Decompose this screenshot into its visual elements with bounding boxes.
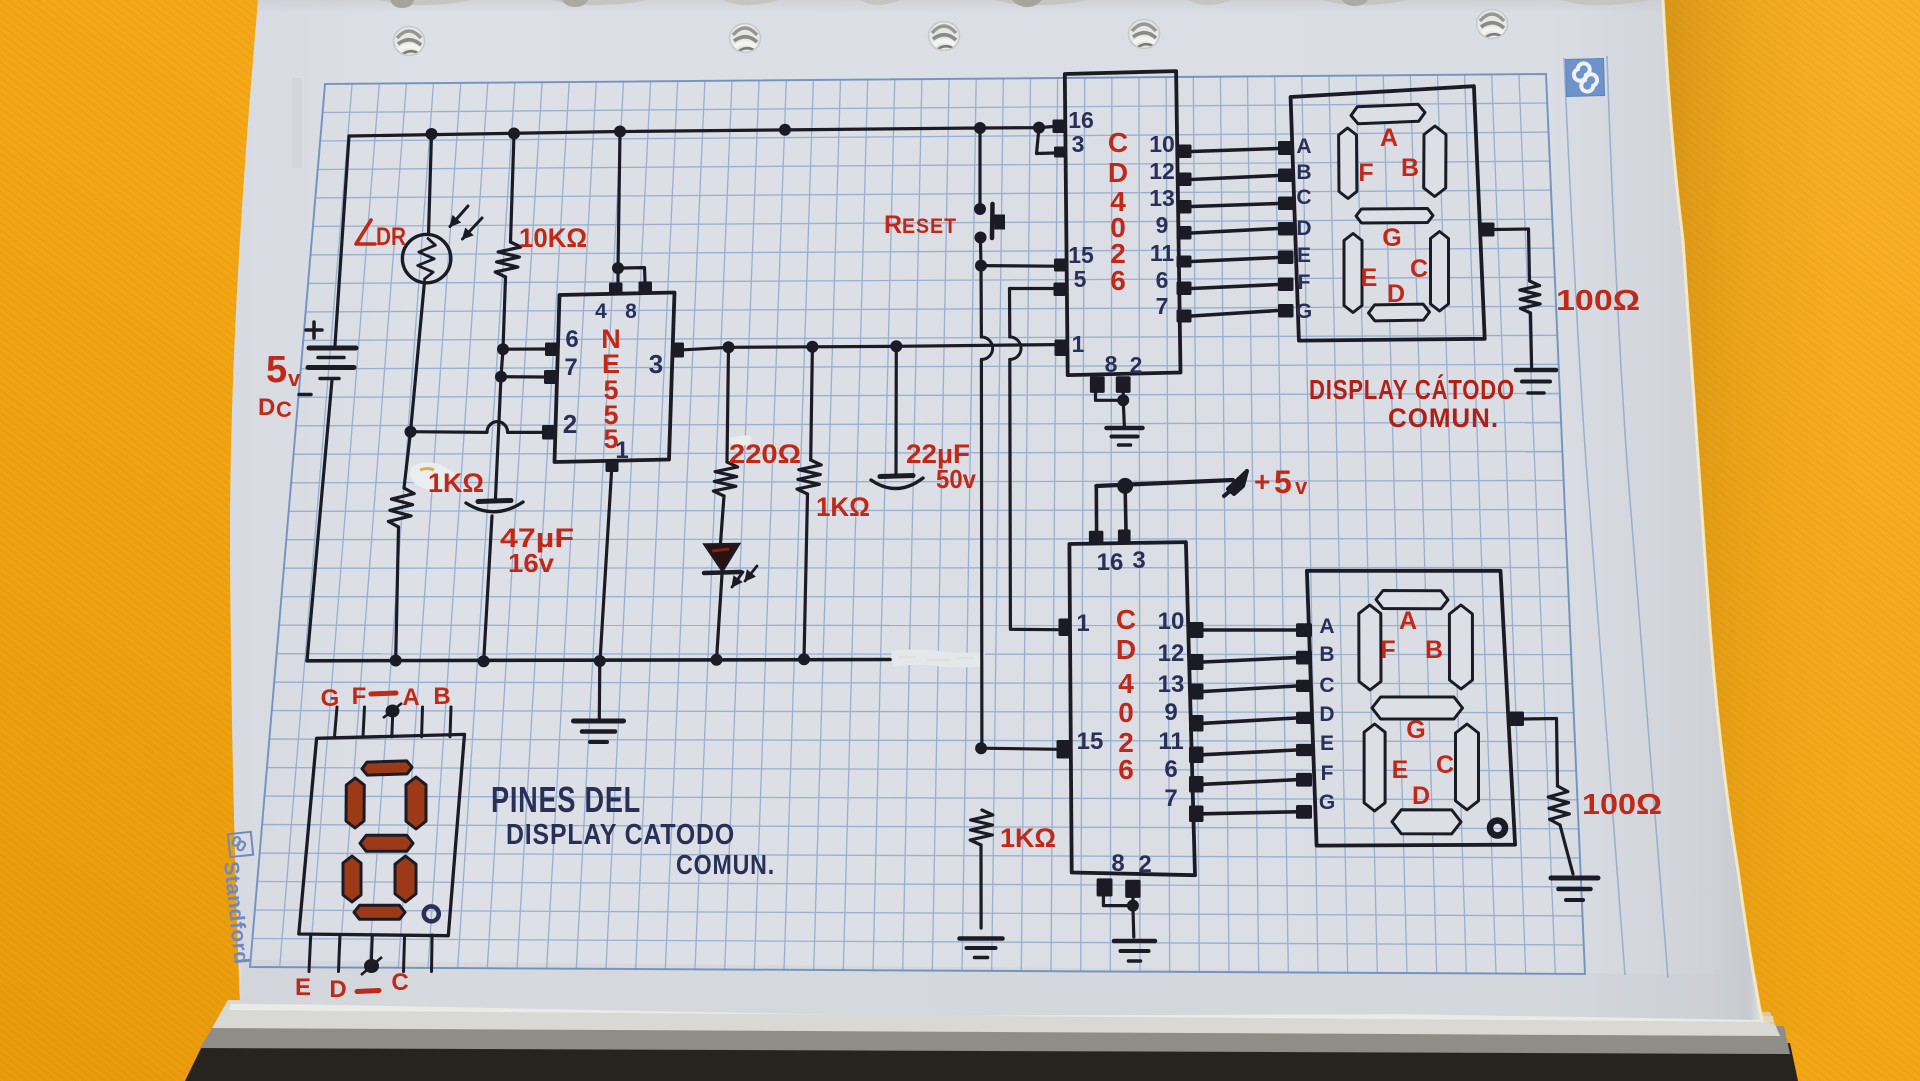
wire bus to 10k	[511, 134, 515, 243]
binder holes	[394, 10, 1508, 56]
display-1 input stubs	[1278, 141, 1294, 318]
svg-text:D: D	[1296, 217, 1311, 240]
wires CD4026-1 to display-1 segments	[1192, 149, 1279, 317]
note COMUN.	[676, 849, 775, 880]
wire pin6 node to pin7 node	[501, 349, 503, 377]
CD4026-1 pin8 stub	[1090, 376, 1105, 393]
label dash bottom	[357, 991, 379, 992]
wire 220R to LED	[721, 496, 725, 543]
svg-text:16: 16	[1097, 549, 1124, 576]
svg-text:DR: DR	[376, 223, 406, 251]
svg-text:5: 5	[603, 424, 618, 454]
svg-text:D: D	[1319, 703, 1334, 726]
resistor 100Ω (1)	[1520, 281, 1540, 313]
svg-text:50v: 50v	[936, 464, 976, 494]
svg-text:5: 5	[266, 349, 287, 391]
svg-text:15: 15	[1068, 242, 1094, 268]
svg-text:E: E	[1392, 756, 1409, 784]
junction pin8-2	[1117, 394, 1129, 406]
label A	[402, 684, 419, 711]
junction pin3 / 22uF	[890, 340, 902, 352]
svg-text:D: D	[329, 976, 346, 1003]
label 100Ω (1)	[1556, 285, 1640, 317]
svg-text:5: 5	[1274, 464, 1292, 500]
display-1 seven segments	[1339, 104, 1449, 321]
ground symbol main	[574, 661, 624, 742]
svg-text:3: 3	[1072, 131, 1085, 157]
svg-text:1: 1	[1076, 610, 1089, 637]
CD4026-1 pin15 stub	[1054, 259, 1066, 272]
battery 5V DC	[308, 348, 356, 379]
display-2 decimal point	[1490, 821, 1505, 836]
svg-text:7: 7	[564, 354, 577, 381]
svg-text:A: A	[1399, 607, 1417, 635]
wire display-1 common to 100R	[1495, 229, 1530, 281]
svg-text:7: 7	[1164, 785, 1177, 812]
torn paper remnants	[378, 0, 1650, 8]
CD4026-2 output stubs	[1189, 622, 1204, 822]
label 220Ω	[729, 439, 801, 469]
junction top bus / LDR	[426, 128, 438, 140]
pin label 12 (2)	[1158, 640, 1185, 667]
CD4026-2 pin8 stub	[1097, 878, 1113, 896]
wire battery + to bus	[335, 136, 349, 345]
pin label 1	[1072, 331, 1085, 357]
CD4026-1 output pin stubs 10 12 13 9 11 6 7	[1177, 145, 1192, 323]
pin label 7	[564, 354, 577, 381]
wire pins 8+2 to ground (2)	[1103, 897, 1133, 938]
pin label 15 (2)	[1077, 728, 1104, 755]
svg-text:B: B	[1319, 643, 1334, 666]
wire pin7 node down to 47uF	[495, 377, 501, 500]
wire pin3 to 220R	[727, 347, 729, 462]
display-2 input stubs	[1296, 623, 1312, 818]
display-1 input labels A-G	[1296, 135, 1312, 323]
CD4026-1 pin2 stub	[1116, 376, 1131, 393]
pin label 7 (2)	[1164, 785, 1177, 812]
svg-text:F: F	[1380, 636, 1395, 664]
svg-text:G: G	[1382, 224, 1401, 252]
svg-text:G: G	[1296, 300, 1312, 323]
CD4026-1 pin5 stub	[1054, 283, 1066, 297]
svg-text:A: A	[1319, 615, 1334, 638]
resistor 1kΩ (2)	[797, 460, 821, 494]
svg-text:C: C	[1319, 674, 1334, 697]
svg-text:0: 0	[1118, 697, 1134, 728]
label +5v	[1254, 464, 1308, 500]
svg-text:6: 6	[565, 326, 578, 353]
pin label 3 (2)	[1132, 547, 1145, 574]
svg-text:12: 12	[1158, 640, 1185, 667]
svg-text:12: 12	[1149, 158, 1175, 184]
counter CD4026 U2 body	[1065, 71, 1181, 375]
resistor 1kΩ (3)	[970, 810, 993, 845]
label D	[329, 976, 346, 1003]
junction bus / 1k	[390, 655, 402, 667]
notebook sheet of graph paper	[230, 0, 1762, 1020]
pinout sketch display body	[299, 734, 465, 935]
svg-text:220Ω: 220Ω	[729, 439, 801, 469]
svg-text:COMUN.: COMUN.	[1388, 403, 1499, 433]
pin label 15	[1068, 242, 1094, 268]
faint watermark	[292, 78, 302, 168]
svg-text:1KΩ: 1KΩ	[816, 492, 870, 522]
pin label 13	[1149, 185, 1175, 211]
svg-text:C: C	[1436, 751, 1454, 779]
svg-text:F: F	[352, 683, 367, 710]
wire pin15 of CD4026-1	[981, 264, 1054, 268]
pin label 8 (2)	[1111, 850, 1124, 877]
7-segment display DS1 body	[1291, 86, 1485, 340]
wire 10k to pin6 node	[503, 277, 506, 349]
svg-text:4: 4	[1118, 668, 1134, 699]
note DISPLAY CATODO	[506, 819, 735, 851]
junction pin15 node (2)	[975, 742, 987, 754]
label 1KΩ (2)	[816, 492, 870, 522]
display-2 segment letters	[1380, 607, 1454, 810]
pin label 6	[565, 326, 578, 353]
pin label 5	[1074, 266, 1087, 292]
capacitor 47uF 16v	[466, 501, 523, 512]
wire pin7	[501, 375, 544, 378]
label F	[352, 683, 367, 710]
wire bus to pin3	[1037, 128, 1055, 154]
svg-text:C: C	[1108, 127, 1128, 158]
label E	[295, 974, 311, 1001]
wires CD4026-2 to display-2	[1204, 630, 1297, 814]
wire bus drop to pins 4+8	[618, 132, 645, 283]
pin label 6	[1156, 267, 1169, 293]
svg-text:G: G	[321, 685, 340, 712]
wire pin3 to 1k(2)	[811, 347, 813, 460]
op-amp/timer NE555 U1 body	[555, 293, 675, 463]
ground symbol 1k(3)	[960, 939, 1003, 958]
label CD4026 (1)	[1108, 127, 1128, 296]
wire pin6	[503, 347, 545, 350]
NE555 pin4 stub	[609, 283, 623, 296]
pin label 16	[1068, 107, 1094, 133]
CD4026-1 pin1 stub	[1055, 340, 1067, 357]
junction top bus / CD4026 pin3 link	[1033, 122, 1045, 134]
svg-text:E: E	[295, 974, 311, 1001]
pin label 9	[1156, 212, 1169, 238]
+5v arrow	[1224, 471, 1247, 496]
svg-text:E: E	[1361, 264, 1378, 292]
wire +5v feed	[1096, 480, 1233, 531]
CD4026-2 pin16 stub	[1089, 531, 1104, 544]
resistor 10k	[495, 242, 521, 277]
svg-text:C: C	[276, 397, 292, 422]
wire 1k(3) to ground	[979, 845, 982, 928]
wire button to pin15 node	[979, 244, 983, 266]
pin label 9 (2)	[1164, 699, 1177, 726]
pin label 2	[563, 409, 577, 439]
wire LED to ground bus	[717, 575, 723, 660]
label 1KΩ (3)	[1000, 823, 1056, 853]
7-segment display DS2 body	[1307, 571, 1515, 846]
svg-text:DISPLAY CÁTODO: DISPLAY CÁTODO	[1309, 374, 1515, 405]
junction pin6 node	[497, 343, 509, 355]
capacitor 22uF 50v	[871, 476, 923, 489]
pin label 1	[615, 437, 628, 464]
wire battery - to ground bus	[307, 380, 332, 661]
pin label 8	[625, 300, 637, 323]
svg-text:E: E	[1297, 244, 1311, 267]
svg-text:C: C	[1296, 186, 1311, 209]
wire display-2 common to 100R	[1524, 719, 1558, 787]
wire ground bus	[307, 660, 890, 661]
sketch top middle dot	[383, 703, 402, 718]
battery + mark	[306, 322, 322, 338]
sketch decimal point	[424, 906, 439, 921]
grid border	[250, 74, 1585, 974]
svg-text:10KΩ: 10KΩ	[519, 223, 587, 253]
svg-text:2: 2	[563, 409, 577, 439]
wire 555 pin3 output	[684, 345, 1055, 350]
ground symbol CD4026-1	[1107, 428, 1143, 445]
resistor 220Ω	[713, 462, 737, 496]
svg-text:+: +	[1254, 466, 1270, 497]
whiteout blob	[410, 462, 457, 489]
junction LDR / pin2 / 1k	[405, 426, 417, 438]
wire 100R to ground	[1531, 313, 1532, 367]
junction pin8-2 (2)	[1127, 900, 1139, 912]
wire bus to button	[978, 128, 981, 204]
svg-text:3: 3	[1132, 547, 1145, 574]
display-2 common stub	[1510, 712, 1525, 727]
svg-text:4: 4	[595, 300, 607, 323]
display-2 input labels A-G	[1319, 615, 1335, 814]
pin label 3	[649, 349, 663, 379]
CD4026-2 pin15 stub	[1057, 740, 1071, 759]
label LDR	[356, 220, 406, 251]
pin label 11	[1150, 240, 1175, 266]
resistor 100Ω (2)	[1548, 786, 1569, 825]
svg-text:1KΩ: 1KΩ	[428, 468, 484, 498]
LDR light arrows	[450, 206, 482, 239]
pin label 12	[1149, 158, 1175, 184]
display-1 segment letters	[1358, 124, 1428, 308]
svg-text:2: 2	[1130, 352, 1143, 378]
label 22uF	[906, 439, 970, 469]
NE555 pin3 stub	[673, 343, 685, 358]
junction pin15 node (1)	[975, 260, 987, 272]
pin label 16 (2)	[1097, 549, 1124, 576]
pin label 7	[1156, 293, 1169, 319]
CD4026-2 pin2 stub	[1125, 880, 1140, 898]
svg-text:13: 13	[1149, 185, 1175, 211]
resistor 1k (555 trigger)	[388, 488, 414, 527]
right margin lines	[1564, 56, 1668, 978]
pin label 1 (2)	[1076, 610, 1089, 637]
svg-text:DISPLAY CATODO: DISPLAY CATODO	[506, 819, 735, 851]
LED D1	[704, 544, 741, 573]
CD4026-1 pin16 stub	[1053, 120, 1066, 134]
svg-text:15: 15	[1077, 728, 1104, 755]
sheet bottom shading	[240, 960, 1762, 1020]
notebook page stack edge	[185, 1000, 1798, 1081]
wire 1k(2) to ground bus	[804, 494, 808, 659]
Standford brand mark	[228, 832, 253, 857]
junction pin7 node	[495, 371, 507, 383]
svg-text:B: B	[433, 683, 450, 710]
svg-text:16: 16	[1068, 107, 1094, 133]
sketch bottom middle dot	[361, 957, 382, 975]
NE555 pin1 stub	[606, 460, 619, 473]
pin label 4	[595, 300, 607, 323]
svg-text:v: v	[1295, 474, 1308, 499]
label NE555	[601, 324, 621, 454]
svg-text:D: D	[258, 394, 275, 421]
svg-text:10: 10	[1149, 131, 1175, 157]
svg-text:B: B	[1401, 154, 1419, 182]
svg-text:3: 3	[649, 349, 663, 379]
graph paper grid	[250, 74, 1585, 974]
svg-text:7: 7	[1156, 293, 1169, 319]
svg-text:R: R	[884, 211, 902, 239]
junction pin3 / 220R	[723, 341, 735, 353]
svg-text:100Ω: 100Ω	[1582, 789, 1662, 821]
label DISPLAY CATODO	[1309, 374, 1515, 405]
label dash top	[371, 693, 396, 694]
svg-text:v: v	[288, 366, 301, 391]
svg-text:F: F	[1358, 159, 1373, 187]
wire pin3 to 22uF	[894, 346, 897, 473]
NE555 pin7 stub	[544, 370, 557, 384]
junction top bus (stray)	[779, 124, 791, 136]
svg-text:C: C	[1410, 255, 1428, 283]
wire pins 8+2 to ground	[1096, 393, 1125, 425]
junction top bus / 10k resistor	[508, 128, 520, 140]
svg-text:ESET: ESET	[902, 215, 957, 238]
wire bus to LDR	[429, 134, 432, 235]
wire pin2 of 555	[411, 422, 543, 433]
junction bus / 1k (2)	[798, 653, 810, 665]
ground symbol CD4026-2	[1114, 941, 1155, 961]
junction pin3 / 1k	[806, 341, 818, 353]
pin label 10 (2)	[1158, 608, 1185, 635]
svg-text:D: D	[1387, 280, 1405, 308]
whiteout erased bus section	[891, 650, 985, 668]
svg-text:11: 11	[1150, 240, 1175, 266]
pin label 6 (2)	[1164, 756, 1177, 783]
counter CD4026 U3 body	[1069, 542, 1195, 875]
svg-text:6: 6	[1156, 267, 1169, 293]
pin label 3	[1072, 131, 1085, 157]
svg-text:A: A	[402, 684, 419, 711]
svg-text:10: 10	[1158, 608, 1185, 635]
LDR photoresistor	[402, 234, 450, 282]
svg-text:D: D	[1116, 634, 1136, 665]
pin label 10	[1149, 131, 1175, 157]
label 47uF	[500, 523, 574, 553]
svg-text:A: A	[1380, 124, 1398, 152]
wire pin2 node to 1k	[404, 432, 411, 488]
svg-text:F: F	[1298, 271, 1311, 294]
fabric shadow along page edge	[1663, 0, 1920, 1081]
NE555 pin8 stub	[639, 282, 653, 295]
svg-text:1KΩ: 1KΩ	[1000, 823, 1056, 853]
NE555 pin2 stub	[542, 425, 555, 440]
label G	[321, 685, 340, 712]
svg-text:5: 5	[1074, 266, 1087, 292]
svg-text:2: 2	[1138, 851, 1151, 878]
label 50v	[936, 464, 976, 494]
label RESET	[884, 211, 957, 239]
display-1 common stub	[1481, 223, 1495, 237]
junction bus / 47uF	[478, 655, 490, 667]
label 16v	[508, 548, 555, 578]
battery - mark	[299, 393, 311, 397]
wire pin15 node to CD4026-2 pin15	[982, 748, 1058, 749]
label 1KΩ (left)	[428, 468, 484, 498]
label C	[391, 969, 408, 996]
wire reset line with hop	[981, 266, 993, 749]
label 5v	[266, 349, 301, 391]
pushbutton RESET	[974, 203, 1005, 244]
sketch filled segments	[343, 761, 426, 919]
LED arrows	[732, 566, 757, 587]
svg-text:G: G	[1319, 791, 1335, 814]
svg-text:G: G	[1406, 716, 1425, 744]
pin label 8	[1105, 351, 1118, 377]
junction bus / 555 pin1	[594, 655, 606, 667]
svg-text:13: 13	[1158, 671, 1185, 698]
label COMUN.	[1388, 403, 1499, 433]
svg-text:F: F	[1321, 762, 1334, 785]
pin label 13 (2)	[1158, 671, 1185, 698]
svg-text:100Ω: 100Ω	[1556, 285, 1640, 317]
CD4026-2 pin1 stub	[1059, 619, 1072, 637]
svg-text:9: 9	[1164, 699, 1177, 726]
svg-text:6: 6	[1164, 756, 1177, 783]
junction pins4-8 link	[612, 262, 624, 274]
display-2 seven segments	[1359, 591, 1479, 834]
wire 100R(2) to ground	[1560, 825, 1573, 874]
wire 1k to ground bus	[396, 527, 399, 661]
wire pin5 of CD4026-1	[1010, 289, 1058, 630]
blue logo stamp top right	[1566, 59, 1605, 97]
svg-text:16v: 16v	[508, 548, 555, 578]
sketch bottom pins	[309, 935, 432, 972]
svg-text:C: C	[1116, 604, 1136, 635]
svg-text:COMUN.: COMUN.	[676, 849, 775, 880]
pin label 2	[1130, 352, 1143, 378]
label DC	[258, 394, 292, 422]
wire LDR to pin2 node	[411, 282, 425, 432]
svg-text:11: 11	[1158, 728, 1183, 755]
svg-text:C: C	[391, 969, 408, 996]
wire 555 pin1 to ground bus	[600, 472, 612, 661]
label 10KΩ	[519, 223, 587, 253]
CD4026-2 pin3 stub	[1118, 530, 1131, 543]
svg-text:PINES DEL: PINES DEL	[491, 779, 641, 820]
junction +5v	[1117, 478, 1133, 494]
svg-text:B: B	[1425, 636, 1443, 664]
junction top bus / NE555 pin8 drop	[614, 126, 626, 138]
ground symbol display-1	[1516, 370, 1556, 393]
junction top bus / reset line	[974, 122, 986, 134]
svg-text:B: B	[1296, 161, 1311, 184]
CD4026-1 pin3 stub	[1054, 147, 1066, 158]
svg-text:8: 8	[625, 300, 637, 323]
label CD4026 (2)	[1116, 604, 1136, 785]
junction bus / LED	[711, 654, 723, 666]
svg-text:D: D	[1412, 782, 1430, 810]
svg-text:8: 8	[1111, 850, 1124, 877]
pin label 11 (2)	[1158, 728, 1183, 755]
sketch top pins	[335, 707, 452, 737]
